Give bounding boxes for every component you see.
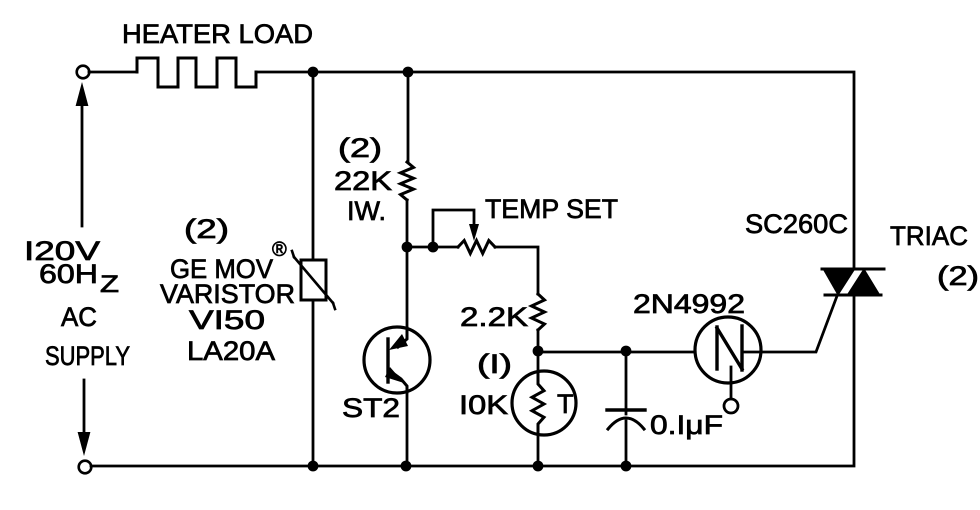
node: wiper tie point <box>428 242 439 253</box>
node: capacitor tap <box>621 346 632 357</box>
resistor: HEATER LOAD element <box>137 58 256 87</box>
svg-text:2N4992: 2N4992 <box>633 289 745 319</box>
svg-text:AC: AC <box>61 302 97 332</box>
wire: 22K top lead <box>407 72 410 162</box>
trigger ST2 body circle <box>364 327 430 393</box>
svg-text:(I): (I) <box>477 349 512 379</box>
resistor 22K 1W <box>401 162 414 200</box>
node: 2.2K / thermistor / gate network <box>533 346 544 357</box>
node: bottom rail / thermistor <box>533 461 544 472</box>
ST2 internal symbol <box>385 328 408 392</box>
AC supply arrow up <box>76 82 89 226</box>
pot wiper arrowhead <box>469 224 479 241</box>
wire: pot wiper loop <box>433 210 474 245</box>
wire: top rail (heater to triac anode) <box>256 72 854 268</box>
node: bottom rail / varistor <box>308 461 319 472</box>
svg-text:0.IμF: 0.IμF <box>650 410 723 440</box>
node: 22K / ST2 / pot junction <box>402 242 413 253</box>
svg-text:(2): (2) <box>338 133 382 163</box>
svg-text:®: ® <box>272 239 287 261</box>
wire: 2.2K bottom lead <box>537 330 540 351</box>
svg-text:SUPPLY: SUPPLY <box>45 341 130 371</box>
wire: node to capacitor tap <box>538 351 626 354</box>
wire: thermistor bottom lead <box>537 434 540 466</box>
svg-text:Z: Z <box>100 271 119 298</box>
thermistor zigzag element <box>532 372 544 434</box>
thermistor 10K body circle <box>512 371 576 435</box>
varistor GE-MOV V150LA20A <box>292 251 335 309</box>
wire: thermistor top lead <box>537 352 540 372</box>
svg-text:2.2K: 2.2K <box>460 302 528 332</box>
potentiometer TEMP SET <box>458 241 495 254</box>
wire: junction to potentiometer <box>407 246 458 249</box>
svg-text:T: T <box>557 389 574 419</box>
node: bottom rail / ST2 <box>401 461 412 472</box>
node: bottom rail / capacitor <box>621 461 632 472</box>
svg-text:22K: 22K <box>334 166 392 196</box>
triac SC260C <box>822 268 884 296</box>
wire: pot to 2.2K <box>495 247 538 294</box>
terminal: AC supply bottom <box>79 461 92 474</box>
capacitor 0.1uF <box>607 352 645 466</box>
node: top rail / 22K branch <box>403 67 414 78</box>
AC supply arrow down <box>78 380 91 456</box>
SBS gate lead and terminal <box>724 367 738 413</box>
svg-text:TRIAC: TRIAC <box>890 221 968 251</box>
svg-text:IW.: IW. <box>347 196 386 226</box>
svg-text:SC260C: SC260C <box>745 209 848 239</box>
svg-text:HEATER LOAD: HEATER LOAD <box>122 19 313 49</box>
wire: ST2 top lead <box>406 247 409 330</box>
wire: varistor bottom lead <box>312 300 315 466</box>
svg-text:TEMP SET: TEMP SET <box>485 194 618 224</box>
svg-text:(2): (2) <box>184 214 229 244</box>
svg-text:VI50: VI50 <box>189 305 265 335</box>
svg-text:I0K: I0K <box>459 390 508 420</box>
wire: 22K bottom lead <box>406 200 409 247</box>
resistor 2.2K <box>532 294 545 330</box>
wire: varistor top lead <box>312 72 315 260</box>
SBS 2N4992 body circle <box>695 317 761 383</box>
wire: cap tap to SBS anode <box>626 351 717 354</box>
svg-text:LA20A: LA20A <box>187 336 275 366</box>
wire: top terminal to heater load <box>89 71 137 74</box>
svg-text:(2): (2) <box>937 261 979 291</box>
svg-text:60H: 60H <box>39 259 98 289</box>
SBS internal symbol <box>717 326 742 370</box>
svg-text:ST2: ST2 <box>342 393 400 423</box>
wire: ST2 bottom lead <box>406 392 409 466</box>
node: top rail / varistor branch <box>308 67 319 78</box>
wire: bottom rail <box>91 295 854 466</box>
terminal: AC supply top <box>77 66 90 79</box>
wire: SBS to triac gate <box>742 296 837 352</box>
